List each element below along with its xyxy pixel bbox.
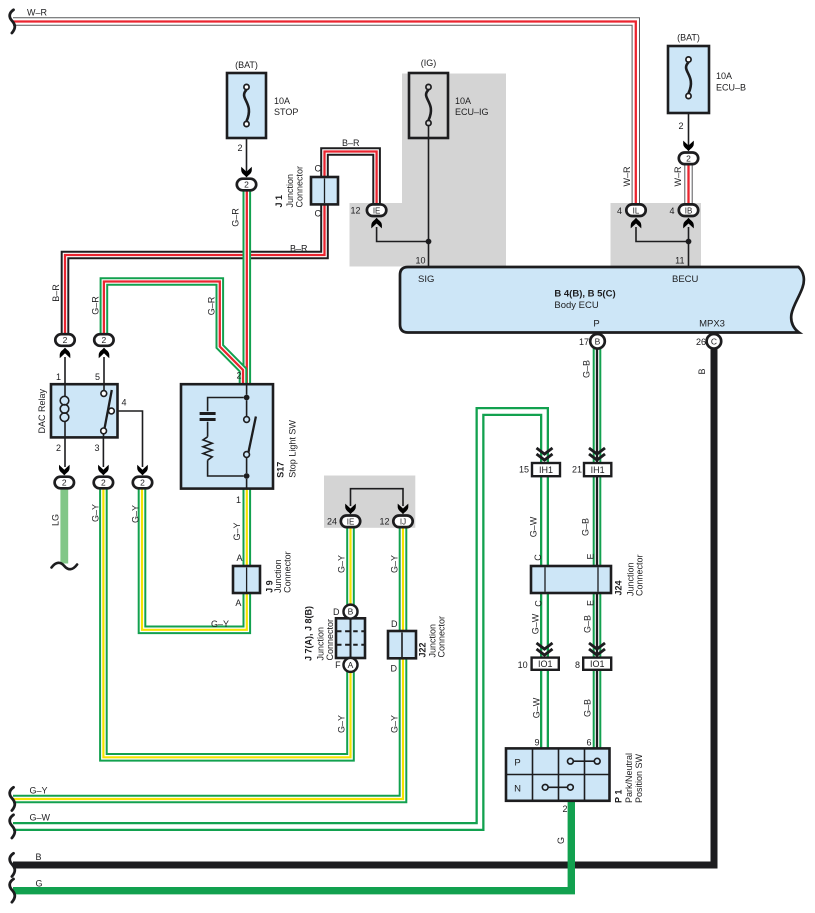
svg-text:D: D <box>391 664 398 674</box>
connector oval 4 IL <box>626 204 645 216</box>
svg-text:Connector: Connector <box>325 619 335 661</box>
fuse 10A ECU-B (BAT) <box>668 46 709 113</box>
DAC relay coil <box>60 385 69 437</box>
wire W-R bus from left break to IL connector <box>13 22 636 206</box>
svg-text:2: 2 <box>63 335 68 345</box>
wire thin link DAC relay pin 4 to oval <box>114 411 143 467</box>
double chevron arrow into 21 IH1 <box>589 448 605 460</box>
svg-text:21: 21 <box>572 465 582 475</box>
svg-text:Connector: Connector <box>294 166 304 208</box>
svg-text:(BAT): (BAT) <box>677 33 700 43</box>
svg-text:B–R: B–R <box>342 138 360 148</box>
svg-text:STOP: STOP <box>274 107 298 117</box>
fuse 10A ECU-IG (IG) <box>409 73 448 138</box>
connector oval 2 at DAC relay pin 5 <box>94 334 113 346</box>
junction connector J1 <box>311 177 338 204</box>
svg-text:Connector: Connector <box>437 616 447 658</box>
node junction dot on pin 11 wire <box>686 239 692 245</box>
svg-text:2: 2 <box>678 121 683 131</box>
svg-text:G–Y: G–Y <box>232 522 242 540</box>
connector oval 2 at DAC relay pin 3 <box>94 477 113 489</box>
wire thin link DAC relay pin 3 to oval <box>102 437 104 467</box>
arrow into LG oval (relay pin 2) <box>59 465 70 476</box>
gray junction-block region around ECU-IG fuse <box>350 74 507 267</box>
svg-text:IB: IB <box>685 206 693 215</box>
wire G-W from bottom-left break up through IH1, J24, IO1 to P1 pin 9 <box>13 412 545 827</box>
DAC relay switch pins 5-3-4 <box>101 385 115 437</box>
svg-text:G–R: G–R <box>90 296 100 315</box>
svg-text:A: A <box>348 660 354 670</box>
svg-text:15: 15 <box>519 465 529 475</box>
svg-text:G: G <box>556 837 566 844</box>
svg-text:G–W: G–W <box>531 613 541 634</box>
svg-text:G–B: G–B <box>582 360 592 378</box>
svg-text:G–R: G–R <box>207 296 217 315</box>
svg-text:G–Y: G–Y <box>337 715 347 733</box>
svg-text:LG: LG <box>51 514 61 526</box>
junction connector J9 <box>233 566 260 593</box>
svg-text:G–Y: G–Y <box>337 555 347 573</box>
svg-text:2: 2 <box>237 143 242 153</box>
double chevron arrow into 10 IO1 <box>537 643 553 655</box>
svg-text:J 1: J 1 <box>274 195 284 208</box>
connector oval 4 IB <box>679 204 698 216</box>
junction connector J24 <box>531 566 611 593</box>
wire thin bracket IE/IJ arrows <box>351 489 404 506</box>
arrow into 24 IE oval <box>345 504 356 515</box>
svg-text:(BAT): (BAT) <box>235 60 258 70</box>
svg-text:G: G <box>36 879 43 889</box>
S17 internal capacitor and resistor branch <box>200 398 244 477</box>
svg-text:G–W: G–W <box>532 697 542 718</box>
svg-text:3: 3 <box>94 443 99 453</box>
svg-text:10: 10 <box>518 660 528 670</box>
svg-text:B–R: B–R <box>51 284 61 302</box>
break symbol on B bus <box>10 853 15 876</box>
svg-text:IH1: IH1 <box>591 465 605 475</box>
junction connector J22 <box>388 631 416 658</box>
svg-text:Connector: Connector <box>634 554 644 596</box>
svg-text:D: D <box>333 607 340 617</box>
svg-text:P 1: P 1 <box>613 790 623 803</box>
svg-text:2: 2 <box>140 478 145 488</box>
svg-text:11: 11 <box>675 256 684 266</box>
svg-text:2: 2 <box>244 180 249 190</box>
svg-text:8: 8 <box>575 660 580 670</box>
svg-text:2: 2 <box>62 478 67 488</box>
svg-text:12: 12 <box>379 517 389 527</box>
svg-text:G–Y: G–Y <box>390 555 400 573</box>
svg-text:4: 4 <box>617 206 622 216</box>
svg-text:DAC Relay: DAC Relay <box>37 388 47 433</box>
wire G-Y from IE oval to J7/J8 connector B <box>346 527 355 605</box>
arrow into STOP fuse oval <box>241 167 252 178</box>
svg-text:C: C <box>315 209 322 219</box>
svg-text:10: 10 <box>415 256 425 266</box>
gray junction-block region around IE/IJ connectors <box>324 476 415 528</box>
arrow into relay pin3 oval <box>98 465 109 476</box>
svg-text:BECU: BECU <box>672 274 699 285</box>
svg-text:ECU–IG: ECU–IG <box>455 107 489 117</box>
double chevron arrow into 15 IH1 <box>537 448 553 460</box>
svg-text:IO1: IO1 <box>538 659 553 669</box>
park/neutral position switch P1 box <box>506 748 610 800</box>
arrow into ECU-B oval <box>683 141 694 152</box>
svg-text:N: N <box>514 784 521 795</box>
svg-text:C: C <box>315 164 322 174</box>
svg-text:E: E <box>586 553 596 559</box>
J7/J8 pin circle B <box>344 605 358 619</box>
svg-text:G–Y: G–Y <box>211 619 229 629</box>
svg-text:B–R: B–R <box>290 244 308 254</box>
arrow into DAC relay pin1 oval <box>60 348 71 359</box>
svg-text:G–W: G–W <box>30 813 51 823</box>
gray junction-block region around IL/IB connectors <box>611 203 702 267</box>
connector oval 2 below STOP fuse <box>237 179 256 191</box>
wire B-R from DAC relay pin1 oval through J1 to IE connector <box>65 152 377 336</box>
connector 21 IH1 <box>584 463 611 476</box>
wire LG from DAC relay pin2 oval to break <box>60 488 68 564</box>
svg-text:G–Y: G–Y <box>30 786 48 796</box>
svg-text:F: F <box>335 660 341 670</box>
wire thin link DAC relay pin 2 to oval <box>64 437 66 467</box>
svg-text:10A: 10A <box>274 96 290 106</box>
svg-text:C: C <box>711 336 717 346</box>
connector oval 2 at DAC relay pin 1 <box>55 334 74 346</box>
wire thin link STOP fuse to oval 2 <box>246 126 248 173</box>
wire W-R from ECU-B fuse oval to IB connector <box>684 163 692 206</box>
svg-text:W–R: W–R <box>622 166 632 187</box>
svg-text:G–Y: G–Y <box>91 504 101 522</box>
svg-text:G–Y: G–Y <box>390 715 400 733</box>
connector oval 2 at DAC relay pin 4 <box>133 477 152 489</box>
connector oval 12 IE <box>367 204 386 216</box>
svg-text:J24: J24 <box>613 580 623 595</box>
wire B from Body ECU pin 26 down and to bottom-left break <box>13 348 714 865</box>
svg-text:IO1: IO1 <box>590 659 605 669</box>
svg-text:G–R: G–R <box>231 208 241 227</box>
svg-text:MPX3: MPX3 <box>699 319 725 330</box>
svg-text:1: 1 <box>236 495 241 505</box>
break symbol on G bus <box>10 879 15 902</box>
J7/J8 pin circle A <box>344 658 358 672</box>
svg-text:G–Y: G–Y <box>131 505 141 523</box>
arrow into DAC relay pin5 oval <box>99 348 110 359</box>
arrow into IE connector (12 IE) <box>371 218 382 229</box>
svg-text:G–B: G–B <box>581 518 591 536</box>
svg-text:P: P <box>514 758 520 769</box>
connector oval 12 IJ <box>393 516 412 528</box>
double chevron arrow into 8 IO1 <box>589 643 605 655</box>
svg-text:W–R: W–R <box>673 166 683 187</box>
Body ECU box B4(B) B5(C) <box>400 267 804 333</box>
break symbol at end of LG wire <box>52 563 78 569</box>
arrow into relay pin4 oval <box>137 465 148 476</box>
svg-text:G–B: G–B <box>583 699 593 717</box>
wire thin link ECU-IG fuse to Body ECU pin 10 SIG <box>428 125 430 267</box>
P1 switch contacts row N <box>542 784 573 790</box>
arrow into IL connector <box>631 218 642 229</box>
svg-text:2: 2 <box>102 335 107 345</box>
wire thin link oval to DAC relay pin 5 <box>103 357 105 384</box>
svg-text:W–R: W–R <box>27 8 48 18</box>
svg-text:G–W: G–W <box>529 516 539 537</box>
svg-text:P: P <box>593 319 599 330</box>
svg-text:J 7(A), J 8(B): J 7(A), J 8(B) <box>304 606 314 661</box>
svg-text:2: 2 <box>686 154 691 164</box>
Body ECU pin 17 circle B <box>590 334 605 349</box>
svg-text:9: 9 <box>534 738 539 748</box>
arrow into 12 IJ oval <box>398 504 409 515</box>
svg-text:26: 26 <box>696 337 706 347</box>
node junction dot on SIG wire <box>426 239 432 245</box>
wire thin link ECU-B fuse to oval 2 <box>688 98 690 147</box>
connector oval 2 below ECU-B fuse <box>679 153 698 165</box>
svg-text:24: 24 <box>327 517 337 527</box>
svg-text:Body ECU: Body ECU <box>554 300 598 311</box>
svg-text:4: 4 <box>122 398 127 408</box>
svg-text:2: 2 <box>56 443 61 453</box>
svg-text:ECU–B: ECU–B <box>716 83 746 93</box>
svg-text:Connector: Connector <box>282 551 292 593</box>
Body ECU pin 26 circle C <box>707 334 722 349</box>
svg-text:Park/Neutral: Park/Neutral <box>624 753 634 803</box>
P1 switch contacts row P <box>568 758 601 764</box>
svg-text:IE: IE <box>373 206 381 215</box>
svg-text:B: B <box>348 607 354 617</box>
stop light switch S17 box <box>181 384 273 488</box>
svg-text:10A: 10A <box>716 71 732 81</box>
svg-text:Position SW: Position SW <box>634 753 644 803</box>
svg-text:Stop Light SW: Stop Light SW <box>288 420 298 478</box>
svg-text:4: 4 <box>669 206 674 216</box>
arrow into IB connector <box>683 218 694 229</box>
svg-text:IJ: IJ <box>400 518 406 527</box>
svg-text:IE: IE <box>347 518 355 527</box>
svg-text:10A: 10A <box>455 96 471 106</box>
svg-text:S17: S17 <box>276 462 286 478</box>
svg-text:E: E <box>586 600 596 606</box>
wire G-Y from S17 pin1 through J9 looping to DAC relay pin4 oval <box>142 488 247 630</box>
DAC Relay box <box>51 384 118 437</box>
wire G-B from Body ECU pin 17 through IH1, J24, IO1 to P1 pin 6 <box>593 348 602 749</box>
connector 8 IO1 <box>583 658 611 670</box>
svg-text:B: B <box>595 336 601 346</box>
svg-text:G–B: G–B <box>583 615 593 633</box>
svg-text:D: D <box>391 619 398 629</box>
svg-text:2: 2 <box>101 478 106 488</box>
junction connector J7(A) J8(B) <box>336 618 365 658</box>
svg-text:IH1: IH1 <box>539 465 553 475</box>
svg-text:B: B <box>697 368 707 374</box>
svg-text:2: 2 <box>562 804 567 814</box>
svg-text:2: 2 <box>236 371 241 381</box>
svg-text:C: C <box>533 554 543 561</box>
wire thin link oval to DAC relay pin 1 <box>64 357 66 384</box>
svg-text:6: 6 <box>586 738 591 748</box>
break symbol on W-R bus <box>10 10 15 33</box>
svg-text:SIG: SIG <box>418 274 434 285</box>
wire G-Y from IJ oval through J22 to bottom-left break <box>13 527 403 799</box>
break symbol on G-Y bus <box>10 787 15 810</box>
wire thin link IL and IB arrows to Body ECU pin 11 <box>636 227 689 267</box>
wire thin link IE arrow to SIG wire <box>377 227 429 242</box>
connector 15 IH1 <box>532 463 560 476</box>
svg-text:A: A <box>236 553 242 563</box>
connector oval 24 IE <box>341 516 360 528</box>
svg-text:5: 5 <box>95 372 100 382</box>
S17 internal switch branch <box>244 385 256 488</box>
svg-text:B 4(B), B 5(C): B 4(B), B 5(C) <box>554 289 615 300</box>
connector 10 IO1 <box>532 658 559 670</box>
svg-text:J22: J22 <box>418 642 428 657</box>
connector oval 2 at DAC relay pin 2 <box>55 477 74 489</box>
svg-text:17: 17 <box>579 337 589 347</box>
break symbol on G-W bus <box>10 815 15 838</box>
svg-text:IL: IL <box>633 206 640 215</box>
wire G-R from STOP fuse oval down to S17 pin 2 <box>243 190 252 384</box>
svg-text:A: A <box>235 598 241 608</box>
wire G-Y from DAC relay pin3 oval looping to J7/J8 connector A <box>103 489 350 757</box>
svg-text:B: B <box>36 852 42 862</box>
wire G-R branch from DAC relay pin5 oval to S17 pin 2 <box>104 282 243 385</box>
svg-text:C: C <box>534 600 544 607</box>
fuse 10A STOP (BAT) <box>227 73 266 138</box>
svg-text:(IG): (IG) <box>421 58 437 68</box>
svg-text:1: 1 <box>56 372 61 382</box>
svg-text:12: 12 <box>350 206 360 216</box>
wire G from P1 pin 2 down and to bottom-left break <box>13 800 571 891</box>
